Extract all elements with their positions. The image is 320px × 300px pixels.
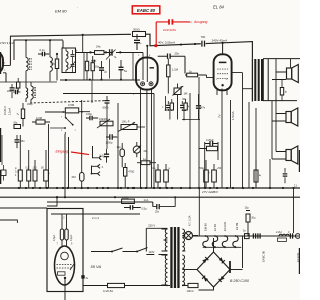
capacitor rc2 [180,101,184,111]
svg-text:9: 9 [226,79,228,81]
capacitor 5a [119,60,128,80]
label 272V 9,1mA [0,41,15,45]
svg-text:2µ: 2µ [104,69,107,73]
resistor 470 ohm [124,163,135,188]
svg-text:’: ’ [77,6,78,10]
coil heater EM80 [203,236,208,247]
svg-text:0,5µ: 0,5µ [142,206,148,210]
svg-text:+: + [208,170,210,174]
svg-text:10µ: 10µ [245,207,250,210]
wire bridge bottom [199,287,214,290]
wire EABC80 top lead [146,46,148,58]
label Eingang (red) [56,150,69,154]
svg-text:7: 7 [57,243,59,245]
svg-text:1,5mA: 1,5mA [231,111,235,120]
capacitor 10uF tone [117,143,125,167]
capacitor el 0,2 [26,150,31,188]
node EABC80 anode dot [146,45,148,47]
svg-text:15-80,V: 15-80,V [4,106,7,115]
wire v222 [221,96,223,189]
coil L3b in can [66,59,68,73]
potentiometer 2M vol [133,142,148,157]
wire 240V rail [146,34,253,58]
diode D2 [219,276,225,282]
svg-text:1mA: 1mA [144,199,149,202]
label 15-80V rot [4,106,12,115]
resistor 0,1/0,5A [103,283,125,293]
capacitor el 0,1 [15,135,22,188]
wire core [30,58,32,70]
transformer T-out core [254,59,263,101]
label 11 [294,183,297,187]
wire v154 [153,94,155,189]
label 40V 0,55mA [158,40,175,44]
label EL 84 rot [213,224,217,231]
capacitor 25n coupling [158,52,185,74]
svg-text:600p: 600p [103,106,109,110]
svg-text:24a: 24a [96,45,101,49]
svg-text:55 VA: 55 VA [91,264,102,269]
svg-text:100 Ω: 100 Ω [187,289,194,293]
wire v146 [146,102,148,188]
capacitor rc1 [162,101,171,111]
tube EM80 eye [55,243,75,300]
coil L1b IF [26,74,28,102]
resistor 7k [16,103,24,127]
wire osc pin drop [6,36,10,82]
label EABC 80 boxed (red) [132,6,160,14]
wire v218b [217,151,219,161]
wire speaker feed 2 [272,114,286,160]
wire red drop to rail [155,22,157,45]
wire v63 [64,134,66,197]
svg-text:220 V: 220 V [148,224,155,228]
wire v249 [248,102,250,188]
label B 250 C100 [230,279,249,283]
svg-text:100: 100 [33,167,38,170]
svg-text:7: 7 [61,117,63,119]
svg-text:EM 80: EM 80 [204,223,208,231]
wire v48 [48,124,50,188]
label EM 80 [55,6,78,14]
wire L-stub a [0,207,47,209]
svg-text:6: 6 [4,63,6,65]
svg-text:3ᴀ: 3ᴀ [86,277,89,280]
svg-text:100Ω: 100Ω [122,196,129,200]
capacitor 5n heater a [243,230,249,239]
resistor 1,1M [167,59,179,94]
wire v205 [204,151,206,189]
tube ECH81 (left edge) [0,51,10,74]
wire arrow small [91,60,95,63]
wire 110V tap [146,250,167,255]
wire grid 2m2 [51,214,140,220]
svg-text:45n: 45n [21,140,26,143]
capacitor eye 0,5uF [60,229,63,240]
svg-text:272V 9,1mA: 272V 9,1mA [0,41,15,45]
capacitor 5n heater b [253,233,260,238]
resistor osc a [85,53,88,81]
capacitor out pair [283,168,288,183]
wire 272V supply rail [10,34,131,36]
svg-text:ʙₖ: ʙₖ [259,174,262,177]
choke 2,2H [276,230,289,241]
resistor 4k7 [254,160,262,188]
wire v190 [189,93,191,188]
capacitor el 50u b [164,164,171,188]
capacitor el +50 [200,160,211,188]
svg-text:0,1/0,5A: 0,1/0,5A [103,289,113,293]
wire under coils [0,81,57,83]
capacitor heater end [288,231,293,239]
svg-text:40V, 0,55mA: 40V, 0,55mA [158,40,175,44]
resistor 1k [185,69,207,76]
svg-text:50: 50 [41,167,44,170]
jack TA1 [93,146,102,160]
capacitor 22nF/400V (red) [169,19,172,24]
svg-text:10µ: 10µ [117,146,122,149]
svg-text:+: + [140,41,142,45]
node rail dot 1 [180,43,182,45]
fuse 1a tone [137,158,156,165]
svg-text:1500p: 1500p [106,142,114,145]
wire v256 [255,108,257,188]
svg-text:0,5M: 0,5M [68,103,75,107]
wire v242 [242,73,244,188]
wire v233 [230,100,232,188]
potentiometer 100k [118,120,145,132]
switch wave S2 [50,113,77,134]
svg-text:Eingang: Eingang [56,150,69,154]
wire v293 [293,188,295,233]
speaker LS3 [286,146,298,164]
svg-text:2M: 2M [72,175,77,179]
svg-text:25n: 25n [175,52,180,56]
transformer T-out secondary [263,59,300,101]
wire v133 [132,53,134,81]
label 22nF/400V (red) [163,28,176,32]
svg-text:2,2H: 2,2H [276,230,282,234]
node tone dots [102,187,135,189]
svg-text:50µ: 50µ [200,166,205,170]
label 0,3A rot [189,215,192,226]
svg-text:0,2M: 0,2M [36,116,43,120]
svg-text:470Ω: 470Ω [128,171,134,174]
wire AVC dashed [30,101,107,103]
diode D1 [219,257,225,263]
resistor 2M [72,173,85,182]
capacitor smoothing at rail [134,34,142,50]
wire v84 [83,53,85,81]
coil heater ECH81 [222,236,227,247]
label ECH81 rot edge [296,252,300,262]
svg-text:EABC 80: EABC 80 [137,8,156,13]
capacitor el 100 [33,160,38,188]
svg-text:160p: 160p [86,112,92,116]
rectifier B250C100 diamond [197,252,230,287]
svg-text:µ: µ [288,231,290,234]
coil L-osc2 [27,82,36,106]
wire v81 [81,100,83,188]
svg-text:1,1mA: 1,1mA [9,107,12,115]
svg-text:P: P [15,168,17,170]
transformer T-mains core [170,227,179,288]
label EM 80 rot [204,223,208,231]
svg-text:110V: 110V [149,250,155,254]
svg-text:EABC 80: EABC 80 [262,250,266,262]
node bus junctions [18,187,295,189]
capacitor 700 series in rail [201,35,206,47]
coil L2 osc [50,40,52,81]
wire v230 mark [229,261,231,273]
capacitor osc fb [13,90,21,94]
wire heater bus [193,235,301,237]
svg-text:2 m 2: 2 m 2 [92,216,99,220]
wire v2 edge [1,135,3,165]
svg-text:EM 80: EM 80 [55,9,67,14]
wire v118 [117,103,119,188]
edge left marks [0,52,1,184]
svg-text:1: 1 [133,94,135,96]
capacitor eye 0,1uF [65,229,68,240]
svg-text:7: 7 [4,70,6,72]
label 240V 45mA [212,38,228,42]
label EL 84 [213,5,225,10]
node EL84 anode dot [222,42,224,44]
potentiometer 1M [173,84,189,120]
svg-text:▪: ▪ [104,157,105,159]
resistor 24a [95,45,105,55]
diode D4 [202,257,208,263]
capacitor 0,2u tone [100,149,110,163]
wire mains bottom [83,285,170,287]
svg-text:4: 4 [15,175,17,177]
resistor rc2 [184,99,190,111]
capacitor 2u [99,61,107,80]
svg-text:µ: µ [169,167,171,170]
svg-text:9: 9 [71,243,73,245]
wire v68 [68,137,70,188]
jack heater end [295,234,300,239]
wire grid row [76,51,144,57]
svg-text:5n: 5n [243,230,246,233]
svg-text:27V 12dB/V: 27V 12dB/V [201,190,219,194]
svg-text:2: 2 [138,55,140,57]
capacitor 25n-b [153,196,176,213]
wire v92 [91,80,93,103]
label 7V [218,114,222,118]
wire eye stub [47,196,58,206]
svg-text:<: < [190,20,192,24]
svg-text:7ₖ: 7ₖ [16,112,20,116]
svg-text:30µ: 30µ [251,216,256,219]
svg-text:490p: 490p [27,103,33,106]
label EABC 80 rot [262,250,266,262]
label 20a [7,90,12,93]
capacitor el 50u a [151,164,160,188]
wire rc2 join [182,99,200,120]
IF can box [62,48,78,73]
svg-text:0,1n: 0,1n [40,48,46,52]
svg-text:700: 700 [201,35,206,39]
svg-text:7V: 7V [218,114,222,118]
svg-text:7: 7 [216,79,218,81]
svg-text:7: 7 [75,130,77,132]
wire bridge top [213,238,215,252]
capacitor 1500p [106,134,118,144]
node red junction [155,44,158,47]
svg-text:EL 84: EL 84 [213,224,217,231]
capacitor el 50 [41,150,50,188]
svg-text:47n: 47n [201,106,206,109]
speaker LS2 [286,108,298,126]
wire v108 [106,108,108,149]
wire speaker feed 1 [272,59,291,159]
svg-text:7a: 7a [114,56,117,59]
svg-text:3: 3 [61,130,63,132]
capacitor 0,25u [205,139,218,150]
svg-text:+50: +50 [217,166,222,170]
svg-text:300Ω: 300Ω [133,28,140,32]
resistor 26a [91,56,100,80]
wire v199 [198,77,200,236]
box EM80 chassis [47,209,83,292]
capacitor trimmer 2a [106,49,117,78]
svg-text:0,25µF: 0,25µF [206,139,214,142]
wire bridge right [230,269,243,271]
wire v243b [242,236,244,268]
capacitor 45n edge [15,135,26,148]
svg-text:B 250 C100: B 250 C100 [230,279,249,283]
transformer T-mains secondary [182,229,185,286]
svg-text:0,5µF: 0,5µF [53,234,56,241]
svg-text:10µ: 10µ [151,166,156,170]
resistor 7u osc [17,78,20,92]
wire screen feed [82,34,84,53]
capacitor 600p [103,96,110,110]
resistor 300Ω series [133,28,146,37]
wire EL84 side leads [207,73,243,78]
svg-text:+: + [48,171,50,175]
transformer T-out primary [243,58,253,101]
svg-text:EL 84: EL 84 [213,5,225,10]
capacitor trim a [71,50,75,61]
resistor 50k [51,54,59,81]
tube EL84 [214,54,232,90]
wire red output lead [156,21,190,23]
label Ausgang (red) [190,20,207,24]
resistor 50a [14,122,21,128]
wire EL84 top lead [222,43,224,54]
capacitor 47n inline [196,94,206,120]
wire bus2 [0,196,300,198]
label 1,5mA [231,111,235,120]
capacitor trim b [71,61,75,72]
label EF 89 rot [235,222,239,230]
wire rc1 join [165,96,174,120]
svg-text:µ: µ [102,165,104,168]
resistor 0,2M [32,116,50,124]
resistor 100ohm [182,283,199,292]
wire arrow trimmer [70,61,76,69]
wire y80 [60,79,140,82]
fuse 1a [199,146,218,150]
svg-text:0,1µF: 0,1µF [70,234,73,241]
label 220 V [148,224,155,228]
resistor +50 box [212,164,222,188]
wire red pointer [71,152,89,155]
wire v150 [151,96,153,188]
wire v141 [140,98,142,188]
speaker LS1 [287,65,299,83]
coil L3a in can [66,48,68,59]
svg-text:ECH 81: ECH 81 [223,221,227,231]
label ECH 81 rot [223,221,227,231]
svg-text:50µ: 50µ [51,62,56,66]
svg-text:1M: 1M [184,92,189,96]
diode D3 [202,276,208,282]
node rail dot 2 [194,43,196,45]
svg-text:100ₖ·P: 100ₖ·P [122,120,130,124]
capacitor 160p [86,112,98,120]
wire inner rail [14,39,63,60]
svg-text:26a: 26a [95,65,100,68]
svg-text:4,7ₖ 0,3A: 4,7ₖ 0,3A [189,215,192,226]
switch mains [91,228,168,252]
svg-text:2: 2 [63,218,65,220]
resistor 0,5M [45,103,90,113]
coil L1a IF [26,41,28,75]
label 27V 12dB/V [201,190,219,194]
svg-text:1,1M: 1,1M [172,68,179,72]
wire bus3 [47,199,153,207]
wire L-stub b [0,220,17,223]
capacitor 0,1n [38,48,49,57]
wire bridge left [185,269,197,271]
jack TA2 [91,157,105,175]
capacitor 0,5u-b [124,205,147,210]
wire EL84 pins [217,88,227,96]
node j1 [56,53,58,55]
svg-text:20µ: 20µ [15,87,20,90]
svg-text:5a: 5a [124,69,127,73]
coil heater EF89h [233,236,238,247]
wire heater return [203,246,242,248]
label 55 VA [91,264,102,269]
svg-text:11: 11 [294,183,297,187]
label 0,1uF rot [70,234,73,241]
svg-text:8: 8 [149,55,151,57]
resistor feedback [280,80,287,101]
wire eye feeds [62,214,67,248]
transformer T-mains primary [162,229,168,286]
lamp pilot [183,232,199,240]
svg-text:EF 89: EF 89 [235,222,239,230]
svg-text:Ausgang: Ausgang [193,20,207,24]
fuse 3A tag [81,275,89,280]
svg-text:↯: ↯ [285,90,288,94]
capacitor 20u osc [10,84,20,98]
svg-text:22nF/400V: 22nF/400V [163,28,176,32]
svg-text:25n: 25n [155,211,160,214]
wire gridline [63,93,154,95]
coil heater EL84 [212,236,217,247]
label 0,5uF rot [53,234,56,241]
svg-text:240V 45mA: 240V 45mA [212,38,228,42]
wire EABC80 pins [141,88,152,102]
capacitor small edge [1,165,6,181]
svg-text:≡: ≡ [162,106,164,109]
